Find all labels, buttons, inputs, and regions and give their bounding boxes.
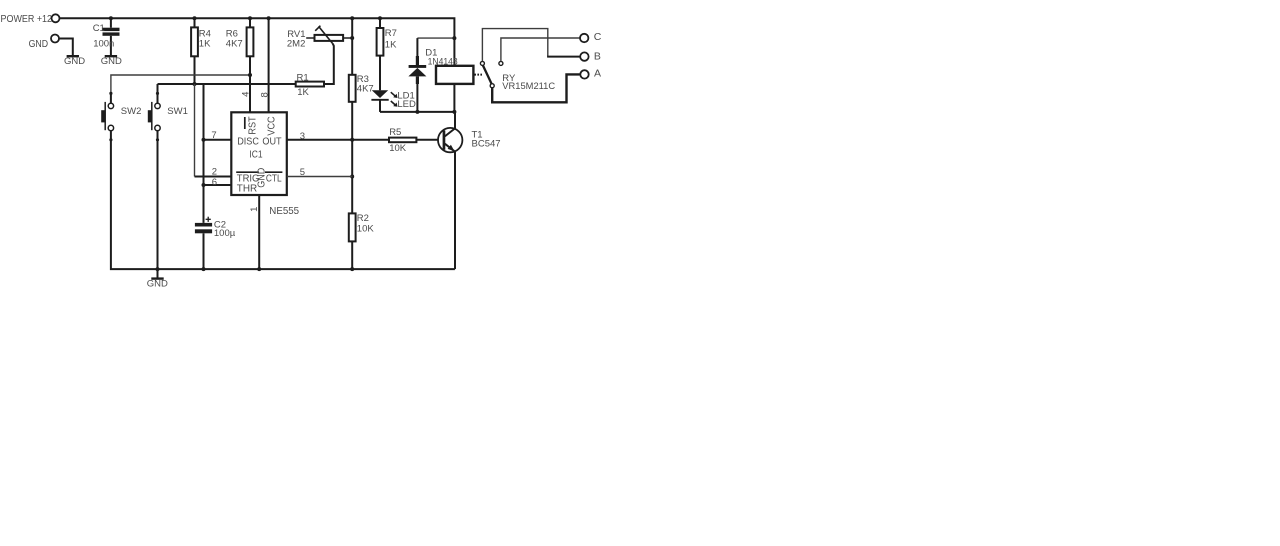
wire R3 column from rail (351, 18, 353, 75)
node junction C1/rail (109, 16, 113, 20)
svg-text:10K: 10K (357, 223, 375, 234)
relay switch lever and contacts (480, 61, 503, 87)
switch SW2 (101, 92, 141, 142)
svg-text:A: A (594, 68, 601, 80)
svg-text:VR15M211C: VR15M211C (502, 81, 555, 92)
svg-text:IC1: IC1 (249, 148, 262, 160)
wire pin6 THR (204, 184, 232, 186)
transistor T1 BC547 (438, 128, 501, 152)
wire relay common to terminal A (thick) (492, 74, 579, 102)
svg-text:R7: R7 (385, 28, 397, 39)
node junction C2/gnd rail (202, 267, 206, 271)
terminal A (580, 68, 601, 80)
node junction R6 column / reset wire (248, 73, 252, 77)
wire R1 right to RV1 wiper (324, 44, 334, 84)
svg-text:GND: GND (64, 56, 85, 67)
capacitor C2 (195, 217, 236, 269)
svg-text:SW2: SW2 (121, 106, 142, 117)
node junction pin7 (202, 138, 206, 142)
diode D1 1N4148 (408, 38, 457, 112)
relay actuation dashed link (474, 74, 482, 76)
svg-text:R1: R1 (297, 72, 309, 83)
wire SW2 bottom to gnd rail (111, 140, 455, 269)
node junction R3/output net (350, 138, 354, 142)
node junction R6/rail (248, 16, 252, 20)
svg-text:GND: GND (147, 279, 168, 290)
svg-text:GND: GND (256, 167, 268, 187)
node junction pin8/rail (267, 16, 271, 20)
svg-text:1K: 1K (385, 39, 397, 50)
svg-text:6: 6 (212, 177, 217, 188)
svg-text:VCC: VCC (265, 116, 277, 136)
wire R3 bottom to R2 top (351, 102, 353, 214)
wire emitter to gnd rail (454, 152, 456, 269)
ground symbol (C1) (101, 56, 122, 67)
wire trigger net SW1/R4/R1 (horizontal y84) (158, 83, 296, 85)
svg-text:GND: GND (29, 38, 49, 50)
terminal B (580, 50, 601, 62)
ground symbol (terminal) (64, 56, 85, 67)
wire relay contact to terminal C (501, 38, 580, 61)
potentiometer RV1 (287, 26, 352, 50)
gnd terminal GND (29, 35, 59, 50)
node junction R7/rail (378, 16, 382, 20)
node junction R4/rail (193, 16, 197, 20)
resistor R1 (296, 72, 324, 98)
power terminal POWER +12V (1, 13, 60, 25)
svg-text:100n: 100n (93, 39, 114, 50)
wire pin5 CTL (287, 176, 352, 178)
wire R2 bottom to gnd rail (351, 241, 353, 269)
resistor R4 (191, 18, 211, 84)
node junction relay/collector net (452, 110, 456, 114)
resistor R6 (226, 18, 254, 112)
svg-text:DISC: DISC (237, 135, 259, 147)
svg-text:4K7: 4K7 (357, 83, 374, 94)
node junction R2/gnd rail (350, 267, 354, 271)
wire pin2 TRIG (195, 176, 232, 178)
node junction R4 bottom (193, 82, 197, 86)
svg-text:4K7: 4K7 (226, 39, 243, 50)
node junction pin6 (202, 183, 206, 187)
svg-text:7: 7 (211, 130, 216, 141)
node junction D1 top/relay drop (452, 36, 456, 40)
wire pin3 OUT to R5 (287, 139, 389, 141)
wire pin8 VCC to rail (268, 18, 270, 112)
svg-text:POWER +12V: POWER +12V (1, 13, 59, 25)
svg-text:GND: GND (101, 56, 122, 67)
ground symbol (bottom GND) (147, 269, 168, 290)
svg-text:CTL: CTL (266, 173, 282, 185)
wire SW1 bottom to gnd rail (157, 140, 159, 269)
resistor R7 (377, 18, 397, 90)
wire top +12V rail (60, 18, 455, 66)
resistor R5 (389, 127, 443, 154)
svg-text:OUT: OUT (262, 135, 282, 147)
svg-text:BC547: BC547 (472, 138, 501, 149)
svg-text:1K: 1K (297, 87, 309, 98)
svg-text:8: 8 (259, 92, 270, 97)
node junction RV1/R3 column (350, 36, 354, 40)
wire SW2 top to R6 column (reset net) (111, 75, 250, 93)
node junction R3 column/rail (350, 16, 354, 20)
svg-text:R5: R5 (389, 127, 401, 138)
svg-text:2M2: 2M2 (287, 39, 305, 50)
wire collector to relay (454, 112, 456, 129)
svg-text:100µ: 100µ (214, 228, 236, 239)
terminal C (580, 31, 602, 43)
svg-text:C: C (594, 31, 602, 43)
LED LD1 (371, 90, 416, 112)
svg-text:R2: R2 (357, 213, 369, 224)
svg-text:NE555: NE555 (269, 205, 299, 217)
wire branch down to pin7/pin6/C2 (203, 84, 205, 223)
wire pin1 GND to rail (258, 195, 260, 269)
svg-text:SW1: SW1 (167, 106, 188, 117)
node junction pin1/gnd rail (257, 267, 261, 271)
resistor R2 (349, 213, 375, 242)
wire gnd terminal to ground (59, 39, 73, 56)
switch SW1 (148, 84, 188, 141)
op-amp IC1 NE555 box (231, 112, 286, 195)
svg-text:1K: 1K (199, 39, 211, 50)
svg-text:10K: 10K (389, 143, 407, 154)
svg-text:C1: C1 (93, 23, 105, 34)
svg-text:THR: THR (237, 183, 258, 195)
svg-text:RST: RST (247, 116, 259, 135)
wire pin7 DISC (204, 139, 232, 141)
wire relay pole to terminal B (482, 29, 547, 62)
svg-text:LED: LED (397, 99, 416, 110)
node junction D1/collector net (415, 110, 419, 114)
capacitor C1 (93, 18, 120, 56)
resistor R3 (349, 74, 374, 102)
relay RY coil (436, 66, 555, 112)
svg-text:B: B (594, 50, 601, 62)
wire LED bottom to collector net (380, 111, 454, 113)
wire thin branch down to pin2 (194, 84, 196, 177)
node junction SW1/gnd rail (156, 267, 160, 271)
node junction R3 column/CTL net (350, 175, 354, 179)
svg-text:4: 4 (240, 92, 251, 97)
